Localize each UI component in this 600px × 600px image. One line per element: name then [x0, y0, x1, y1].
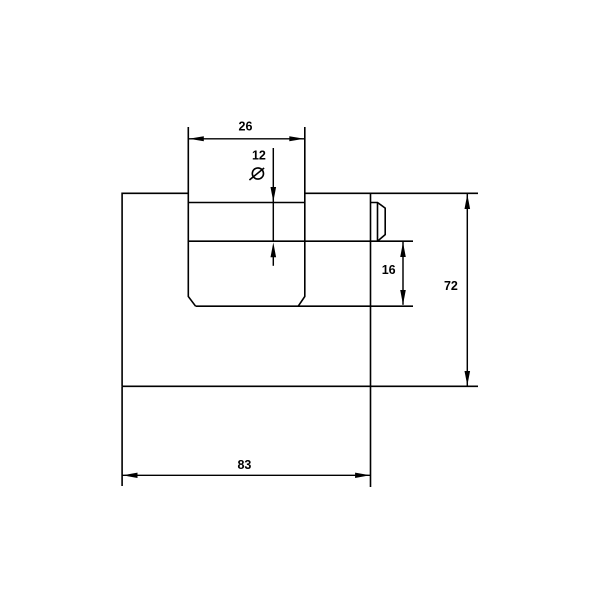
- lock body bottom edge with right extension line: [122, 385, 478, 387]
- bolt bottom edge with right extension line: [188, 240, 413, 242]
- svg-text:12: 12: [252, 149, 266, 163]
- dimension 72 line: [466, 194, 468, 386]
- dimension 83 line: [122, 474, 370, 476]
- dimension 12 up arrowhead: [271, 242, 277, 257]
- dimension 72 up arrowhead: [465, 194, 471, 209]
- dimension 83 right arrowhead: [355, 473, 370, 478]
- diameter symbol slash: [249, 168, 264, 180]
- dimension 16 up arrowhead: [400, 242, 406, 257]
- dimension 26 line: [188, 138, 304, 140]
- dimension 83 left arrowhead: [123, 473, 138, 478]
- dimension 72 down arrowhead: [465, 371, 471, 386]
- svg-text:83: 83: [237, 458, 251, 472]
- svg-text:16: 16: [382, 263, 396, 277]
- bolt top edge inside slot: [188, 202, 304, 204]
- shackle slot right line with chamfer: [298, 127, 305, 306]
- lock body top-right edge with right extension line: [305, 192, 478, 194]
- lock body left bottom extension line: [121, 386, 123, 486]
- shackle slot left line with chamfer: [188, 127, 195, 306]
- dimension 12 down arrowhead: [271, 187, 277, 202]
- svg-text:72: 72: [444, 279, 458, 293]
- dimension 16 down arrowhead: [400, 290, 406, 305]
- diameter symbol circle: [252, 168, 263, 179]
- dimension 26 left arrowhead: [189, 136, 204, 141]
- lock body outline left+top-left edge: [122, 193, 188, 386]
- dimension 16 line: [402, 242, 404, 305]
- svg-text:26: 26: [239, 119, 253, 133]
- bolt tab inner face line: [377, 203, 379, 242]
- dimension 12 line: [272, 148, 274, 241]
- bolt protruding tab outline: [371, 203, 386, 242]
- dimension 12 lower arrow tail: [272, 256, 274, 266]
- shackle slot bottom edge with right extension line: [196, 305, 413, 307]
- lock body right edge with bottom extension line: [370, 193, 372, 487]
- dimension 26 right arrowhead: [289, 136, 304, 141]
